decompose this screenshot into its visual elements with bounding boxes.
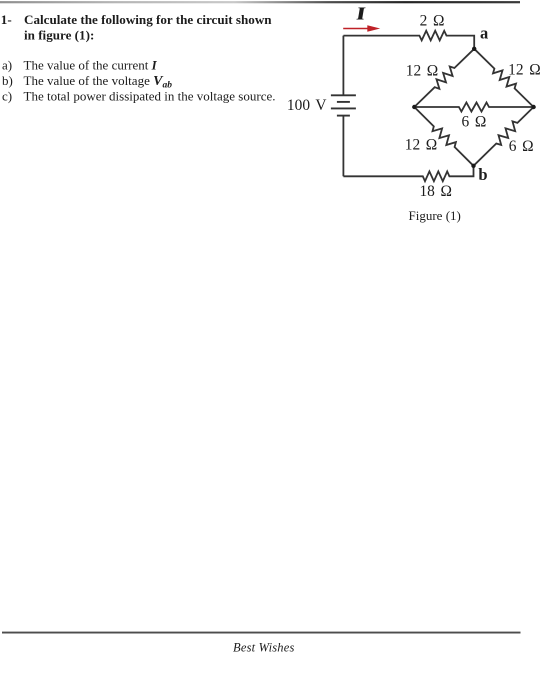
svg-text:a: a [480, 23, 488, 42]
svg-text:The value of the current I: The value of the current I [24, 57, 158, 72]
svg-text:18 Ω: 18 Ω [419, 183, 451, 200]
svg-text:12 Ω: 12 Ω [405, 137, 437, 154]
svg-text:6 Ω: 6 Ω [509, 138, 534, 155]
svg-text:6 Ω: 6 Ω [462, 114, 487, 131]
svg-text:2 Ω: 2 Ω [420, 13, 445, 30]
svg-text:The total power dissipated in: The total power dissipated in the voltag… [24, 89, 276, 104]
svg-text:12 Ω: 12 Ω [406, 62, 438, 79]
svg-text:b: b [478, 165, 487, 184]
svg-text:in figure (1):: in figure (1): [24, 28, 94, 43]
svg-text:Best Wishes: Best Wishes [233, 641, 295, 655]
svg-text:b): b) [2, 73, 13, 88]
svg-text:12 Ω: 12 Ω [508, 61, 540, 78]
svg-text:100 V: 100 V [287, 97, 327, 114]
svg-text:Figure (1): Figure (1) [409, 208, 461, 223]
svg-text:1-: 1- [1, 12, 12, 27]
svg-text:c): c) [2, 89, 12, 104]
svg-text:Calculate the following for th: Calculate the following for the circuit … [24, 12, 272, 27]
svg-text:a): a) [2, 57, 12, 72]
svg-text:I: I [357, 3, 366, 23]
